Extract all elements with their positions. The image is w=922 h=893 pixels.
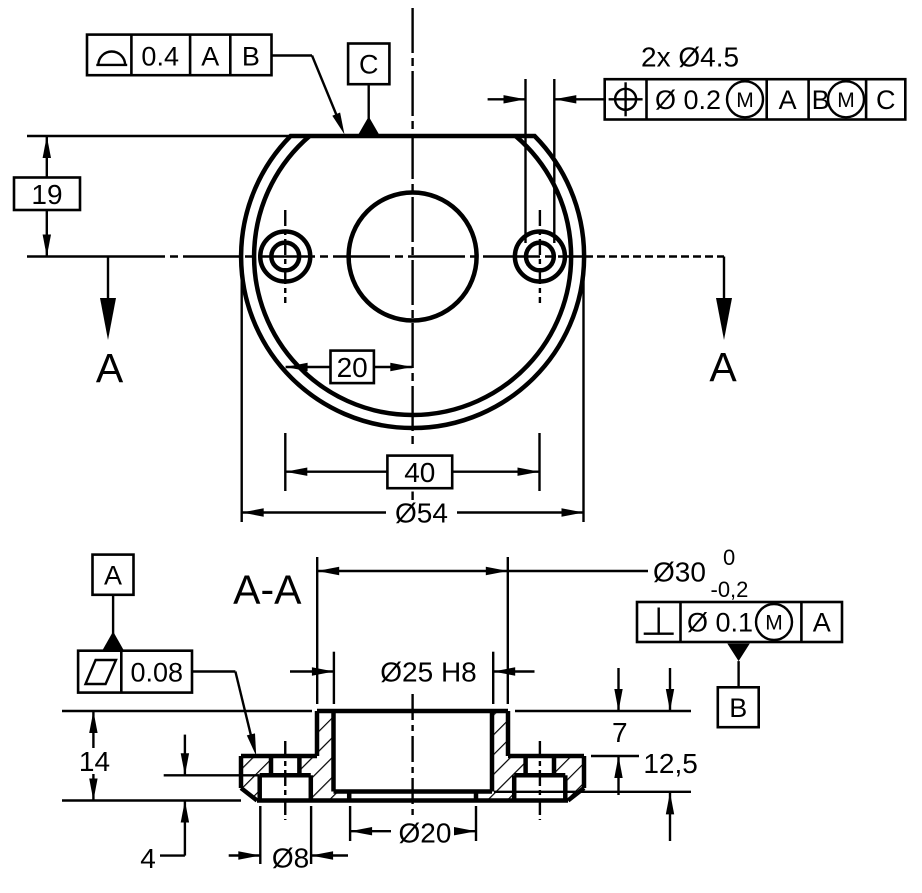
svg-text:M: M bbox=[837, 89, 855, 112]
dimension 20 bbox=[286, 351, 413, 384]
label 2x Ø4.5 bbox=[641, 42, 739, 73]
svg-text:0.08: 0.08 bbox=[131, 657, 184, 687]
left hole vertical centerline bbox=[284, 210, 286, 303]
datum A flag bbox=[93, 555, 134, 650]
dimension Ø54 bbox=[242, 498, 584, 529]
extension Ø30 left bbox=[316, 557, 318, 704]
dimension 14 bbox=[79, 711, 110, 801]
extension Ø8 left bbox=[259, 806, 261, 864]
section arrow left A bbox=[96, 257, 124, 392]
extension line Ø54 left bbox=[240, 260, 242, 522]
section hatching left outer bbox=[241, 756, 271, 801]
right hole Ø4.5 bbox=[526, 243, 554, 271]
dimension Ø25 H8 bbox=[290, 657, 535, 688]
section hatching right outer bbox=[554, 756, 584, 801]
svg-text:A-A: A-A bbox=[233, 567, 302, 613]
position feature control frame bbox=[605, 79, 906, 119]
svg-text:0.4: 0.4 bbox=[141, 42, 179, 72]
extension line hole Ø4.5 right edge bbox=[553, 79, 555, 243]
perpendicularity FCF Ø0.1 M A bbox=[637, 602, 842, 642]
top view outer outline (flat + Ø54 arc) bbox=[241, 136, 584, 428]
extension line Ø54 right bbox=[582, 260, 584, 522]
extension Ø25 right bbox=[492, 652, 494, 704]
top view inner rim arc bbox=[254, 136, 571, 415]
svg-text:0: 0 bbox=[723, 545, 735, 570]
extension Ø20 right bbox=[475, 806, 477, 841]
section arrow right A bbox=[709, 257, 737, 391]
extension Ø25 left bbox=[333, 652, 335, 704]
svg-text:2x Ø4.5: 2x Ø4.5 bbox=[641, 42, 739, 73]
dimension 12,5 bbox=[643, 668, 698, 841]
svg-text:B: B bbox=[242, 42, 260, 72]
extension line hole Ø4.5 left edge bbox=[524, 79, 526, 243]
svg-text:Ø20: Ø20 bbox=[399, 818, 452, 849]
section right hole centerline bbox=[539, 741, 541, 820]
center bore circle Ø20 bbox=[349, 193, 477, 321]
extension Ø20 left bbox=[349, 806, 351, 841]
svg-text:A: A bbox=[96, 345, 124, 391]
left hole Ø4.5 bbox=[271, 243, 299, 271]
svg-text:C: C bbox=[876, 85, 896, 115]
svg-text:-0,2: -0,2 bbox=[711, 577, 749, 602]
flange top extension right bbox=[591, 755, 639, 757]
dimension Ø20 bbox=[350, 818, 476, 849]
cutting plane line A-A (horizontal centerline) bbox=[27, 255, 724, 257]
leader from position FCF to hole bbox=[488, 95, 605, 103]
svg-text:C: C bbox=[359, 50, 379, 80]
dimension 40 bbox=[285, 456, 539, 489]
svg-text:A: A bbox=[104, 560, 122, 590]
section part outline bbox=[241, 711, 584, 801]
dimension 4 bbox=[140, 735, 189, 874]
counterbore ceiling extension left bbox=[164, 774, 260, 776]
svg-text:Ø54: Ø54 bbox=[395, 498, 448, 529]
dimension Ø30 0/-0.2 bbox=[317, 545, 748, 602]
extension Ø30 right bbox=[507, 557, 509, 704]
svg-text:7: 7 bbox=[612, 717, 628, 748]
bottom extension left bbox=[62, 799, 241, 801]
svg-text:Ø30: Ø30 bbox=[653, 557, 706, 588]
section hatching left inner bbox=[299, 711, 349, 801]
svg-text:12,5: 12,5 bbox=[643, 748, 698, 779]
section left hole centerline bbox=[284, 741, 286, 820]
flatness FCF 0.08 bbox=[78, 651, 192, 693]
step extension right bbox=[494, 791, 691, 793]
svg-text:19: 19 bbox=[31, 179, 62, 210]
svg-text:B: B bbox=[729, 693, 747, 723]
flat top extension line (dim 19) bbox=[27, 135, 291, 137]
boss top extension left bbox=[62, 710, 312, 712]
svg-text:Ø 0.1: Ø 0.1 bbox=[687, 608, 753, 638]
boss top extension right bbox=[515, 710, 691, 712]
section label A-A bbox=[233, 567, 302, 613]
right hole counterbore Ø8 bbox=[515, 232, 565, 282]
section hatching right inner bbox=[476, 711, 526, 801]
svg-text:A: A bbox=[201, 42, 219, 72]
svg-text:40: 40 bbox=[404, 457, 435, 488]
dimension 19 bbox=[14, 136, 80, 257]
svg-text:M: M bbox=[736, 89, 754, 112]
extension Ø8 right bbox=[310, 806, 312, 864]
extension line 40 left bbox=[284, 433, 286, 491]
svg-text:Ø 0.2: Ø 0.2 bbox=[655, 85, 721, 115]
top view vertical centerline bbox=[411, 8, 413, 500]
right hole vertical centerline bbox=[539, 210, 541, 303]
svg-text:M: M bbox=[765, 612, 783, 635]
extension line 40 right bbox=[538, 433, 540, 491]
datum C flag bbox=[348, 44, 389, 135]
datum B flag bbox=[718, 644, 759, 728]
svg-text:Ø8: Ø8 bbox=[272, 843, 309, 874]
leader from profile FCF bbox=[272, 56, 345, 135]
svg-text:14: 14 bbox=[79, 746, 110, 777]
dimension Ø8 bbox=[229, 843, 348, 874]
svg-text:A: A bbox=[779, 85, 797, 115]
svg-text:Ø25 H8: Ø25 H8 bbox=[380, 657, 477, 688]
left hole counterbore Ø8 bbox=[260, 232, 310, 282]
svg-text:20: 20 bbox=[337, 352, 368, 383]
svg-text:A: A bbox=[813, 608, 831, 638]
feature control frame profile 0.4 A B bbox=[87, 35, 272, 76]
leader from flatness FCF bbox=[192, 672, 256, 756]
section main centerline bbox=[411, 694, 413, 820]
dimension 7 bbox=[612, 668, 628, 795]
svg-text:A: A bbox=[709, 344, 737, 390]
svg-text:4: 4 bbox=[140, 843, 156, 874]
